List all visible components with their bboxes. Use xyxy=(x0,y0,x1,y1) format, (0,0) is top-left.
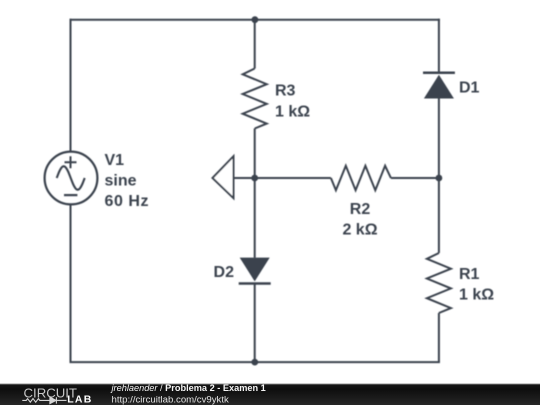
resistor R1 xyxy=(427,253,451,313)
svg-text:D2: D2 xyxy=(214,264,235,281)
resistor R3 xyxy=(243,69,267,129)
V1 sine symbol xyxy=(57,166,85,190)
svg-text:http://circuitlab.com/cv9yktk: http://circuitlab.com/cv9yktk xyxy=(112,394,229,405)
V1 minus sign xyxy=(64,194,77,196)
wire left lower xyxy=(70,204,72,362)
wire mid-top (node between top rail and R3) xyxy=(254,20,256,69)
diode D2 cathode bar xyxy=(239,282,271,285)
junction dot node A xyxy=(251,175,258,182)
svg-text:jrehlaender / Problema 2 - Exa: jrehlaender / Problema 2 - Examen 1 xyxy=(110,383,266,393)
svg-text:60 Hz: 60 Hz xyxy=(105,193,150,210)
wire mid-bottom (D2 to bottom rail) xyxy=(254,284,256,363)
wire right lower (R1 to bottom rail) xyxy=(438,313,440,362)
svg-text:2 kΩ: 2 kΩ xyxy=(342,221,377,238)
svg-text:R3: R3 xyxy=(275,83,296,100)
wire right middle (D1 to node B) xyxy=(438,99,440,254)
diode D1 triangle xyxy=(424,75,454,99)
junction dot node B xyxy=(436,175,443,182)
junction dot bottom xyxy=(251,359,258,366)
wire node A horizontal (triangle to R2) xyxy=(234,177,331,179)
svg-text:1 kΩ: 1 kΩ xyxy=(275,103,310,120)
wire right upper (top rail to D1) xyxy=(438,19,440,73)
svg-text:1 kΩ: 1 kΩ xyxy=(459,287,494,304)
wire left upper xyxy=(70,19,72,152)
wire top xyxy=(70,19,440,21)
wire mid-center (R3 to D2 through node A) xyxy=(254,129,256,258)
svg-text:sine: sine xyxy=(105,173,137,190)
wire bottom xyxy=(70,361,440,363)
svg-text:LAB: LAB xyxy=(67,394,92,405)
voltage source V1 circle xyxy=(45,152,98,205)
svg-text:V1: V1 xyxy=(105,152,125,169)
node marker triangle (node A flag) xyxy=(213,156,234,198)
wire node B horizontal (R2 to right rail) xyxy=(391,177,439,179)
V1 plus sign xyxy=(65,156,77,168)
CircuitLab logo resistor+diode glyph xyxy=(22,397,66,403)
svg-text:R2: R2 xyxy=(350,201,371,218)
svg-text:D1: D1 xyxy=(459,80,480,97)
junction dot top xyxy=(252,16,259,23)
diode D2 triangle xyxy=(240,258,270,282)
svg-text:R1: R1 xyxy=(459,266,480,283)
diode D1 cathode bar xyxy=(423,72,455,75)
resistor R2 xyxy=(331,166,391,190)
